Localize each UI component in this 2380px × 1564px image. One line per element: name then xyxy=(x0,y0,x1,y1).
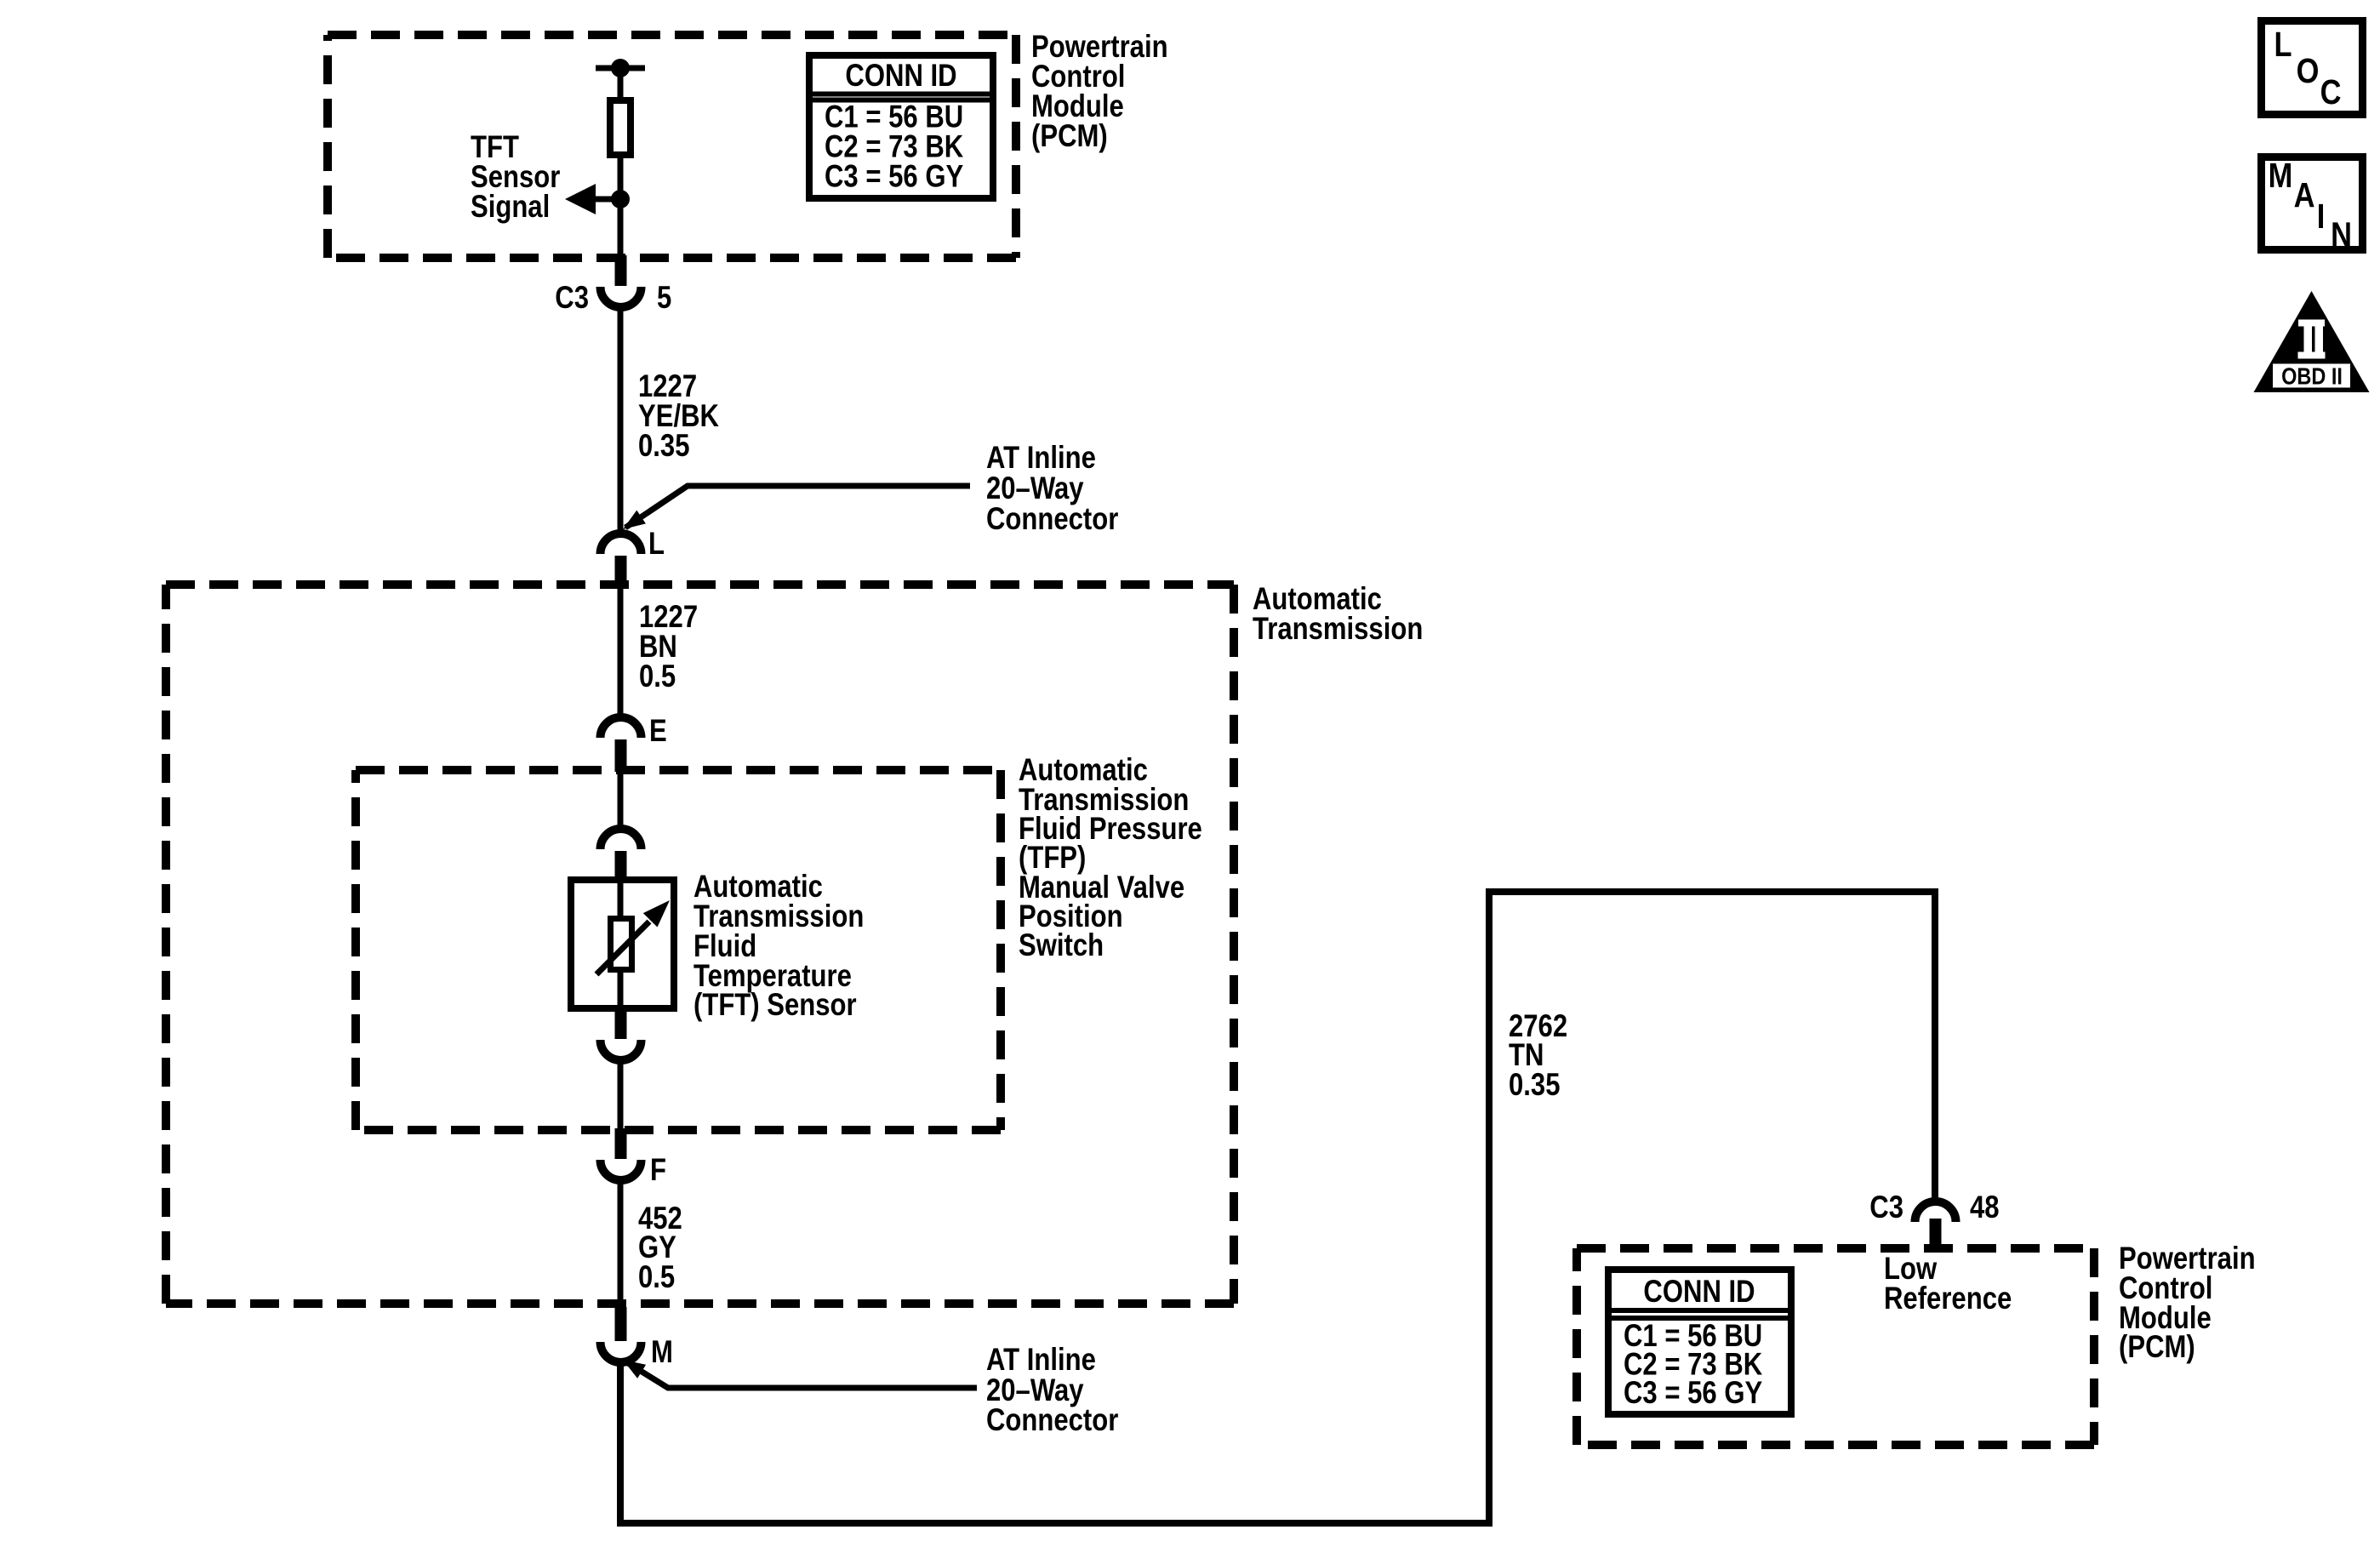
svg-text:CONN ID: CONN ID xyxy=(845,59,956,94)
AT inline connector pin F xyxy=(601,1128,666,1188)
LOC icon xyxy=(2262,21,2363,115)
label: 1227 BN 0.5 xyxy=(639,600,698,694)
wire (E to sensor connector) xyxy=(618,771,624,830)
svg-text:M: M xyxy=(2269,157,2293,195)
leader to AT inline connector (bottom) xyxy=(623,1360,977,1388)
label: Powertrain Control Module (PCM) top xyxy=(1031,30,1168,154)
svg-text:L: L xyxy=(2274,26,2292,64)
svg-text:AT Inline: AT Inline xyxy=(986,1343,1096,1378)
svg-text:Switch: Switch xyxy=(1019,928,1104,963)
wire 1227 YE/BK xyxy=(618,307,624,534)
connector C3 pin 48 xyxy=(1869,1190,1999,1249)
TFP manual valve position switch box (dashed) xyxy=(356,770,1001,1130)
AT inline connector pin M xyxy=(601,1307,673,1370)
svg-text:CONN ID: CONN ID xyxy=(1643,1275,1755,1310)
label: Powertrain Control Module (PCM) bottom xyxy=(2119,1241,2256,1365)
label: 452 GY 0.5 xyxy=(638,1202,682,1295)
label: TFT Sensor Signal xyxy=(471,130,560,225)
svg-text:A: A xyxy=(2294,176,2315,214)
connector (TFT sensor top) xyxy=(601,829,642,878)
PCM module box (bottom, dashed) xyxy=(1577,1248,2094,1445)
svg-text:Signal: Signal xyxy=(471,190,550,225)
connector C3 pin 5 xyxy=(555,255,671,316)
svg-text:(PCM): (PCM) xyxy=(1031,119,1108,154)
svg-text:0.35: 0.35 xyxy=(638,429,689,464)
svg-text:OBD II: OBD II xyxy=(2281,364,2343,390)
svg-text:48: 48 xyxy=(1970,1190,2000,1225)
svg-text:(PCM): (PCM) xyxy=(2119,1330,2195,1365)
leader to AT inline connector (top) xyxy=(623,486,970,529)
label: 2762 TN 0.35 xyxy=(1509,1009,1567,1103)
svg-text:O: O xyxy=(2297,52,2320,90)
resistor (PCM pull-up) xyxy=(610,100,631,155)
signal arrow (TFT Sensor Signal) xyxy=(565,184,620,214)
TFT sensor (thermistor in box) xyxy=(571,880,674,1008)
svg-text:Connector: Connector xyxy=(986,1403,1118,1438)
svg-text:0.35: 0.35 xyxy=(1509,1068,1560,1103)
svg-text:C3: C3 xyxy=(1869,1190,1903,1225)
svg-text:0.5: 0.5 xyxy=(638,1260,675,1295)
CONN ID table (bottom) xyxy=(1608,1270,1791,1414)
AT inline connector pin E xyxy=(601,714,667,772)
svg-text:C3 = 56 GY: C3 = 56 GY xyxy=(825,159,963,194)
MAIN icon xyxy=(2262,157,2363,254)
svg-text:0.5: 0.5 xyxy=(639,659,676,694)
label: AT Inline 20-Way Connector (bottom) xyxy=(986,1343,1118,1438)
label: Automatic Transmission xyxy=(1253,582,1423,647)
label: Automatic Transmission Fluid Pressure (TFP) Manual Valve Position Switch xyxy=(1019,753,1202,963)
CONN ID table (top) xyxy=(809,55,993,198)
wire (sensor to F) xyxy=(618,1060,624,1132)
svg-text:C3: C3 xyxy=(555,281,589,316)
label: AT Inline 20-Way Connector (top) xyxy=(986,441,1118,537)
svg-text:F: F xyxy=(650,1153,666,1188)
svg-text:Connector: Connector xyxy=(986,502,1118,537)
wire (resistor to connector C3-5) xyxy=(618,155,624,260)
connector (TFT sensor bottom) xyxy=(601,1008,642,1060)
svg-text:20–Way: 20–Way xyxy=(986,471,1084,506)
PCM module box (top, dashed) xyxy=(328,35,1016,258)
Automatic Transmission box (dashed) xyxy=(166,585,1234,1304)
svg-text:(TFT) Sensor: (TFT) Sensor xyxy=(693,988,857,1023)
svg-text:E: E xyxy=(649,714,667,749)
AT inline connector pin L xyxy=(601,527,665,589)
node: internal T-bar junction xyxy=(596,59,645,77)
wire 2762 TN (route M to C3-48) xyxy=(620,892,1935,1523)
svg-text:Transmission: Transmission xyxy=(1253,612,1423,647)
svg-text:5: 5 xyxy=(657,281,671,316)
svg-text:M: M xyxy=(651,1335,673,1370)
wire 1227 BN xyxy=(618,589,624,719)
label: 1227 YE/BK 0.35 xyxy=(638,369,719,464)
svg-text:Reference: Reference xyxy=(1884,1281,2012,1316)
label: Low Reference xyxy=(1884,1252,2012,1316)
label: Automatic Transmission Fluid Temperature (TFT) Sensor xyxy=(693,870,864,1023)
wire (T-bar to resistor) xyxy=(618,68,624,100)
svg-text:N: N xyxy=(2331,216,2352,254)
OBD II icon xyxy=(2254,291,2370,392)
svg-text:L: L xyxy=(648,527,665,562)
svg-text:AT Inline: AT Inline xyxy=(986,441,1096,476)
svg-text:C3 = 56 GY: C3 = 56 GY xyxy=(1624,1376,1762,1411)
svg-text:I: I xyxy=(2317,197,2326,236)
wire 452 GY xyxy=(618,1180,624,1310)
svg-text:C: C xyxy=(2320,73,2342,111)
junction dot xyxy=(611,190,630,208)
